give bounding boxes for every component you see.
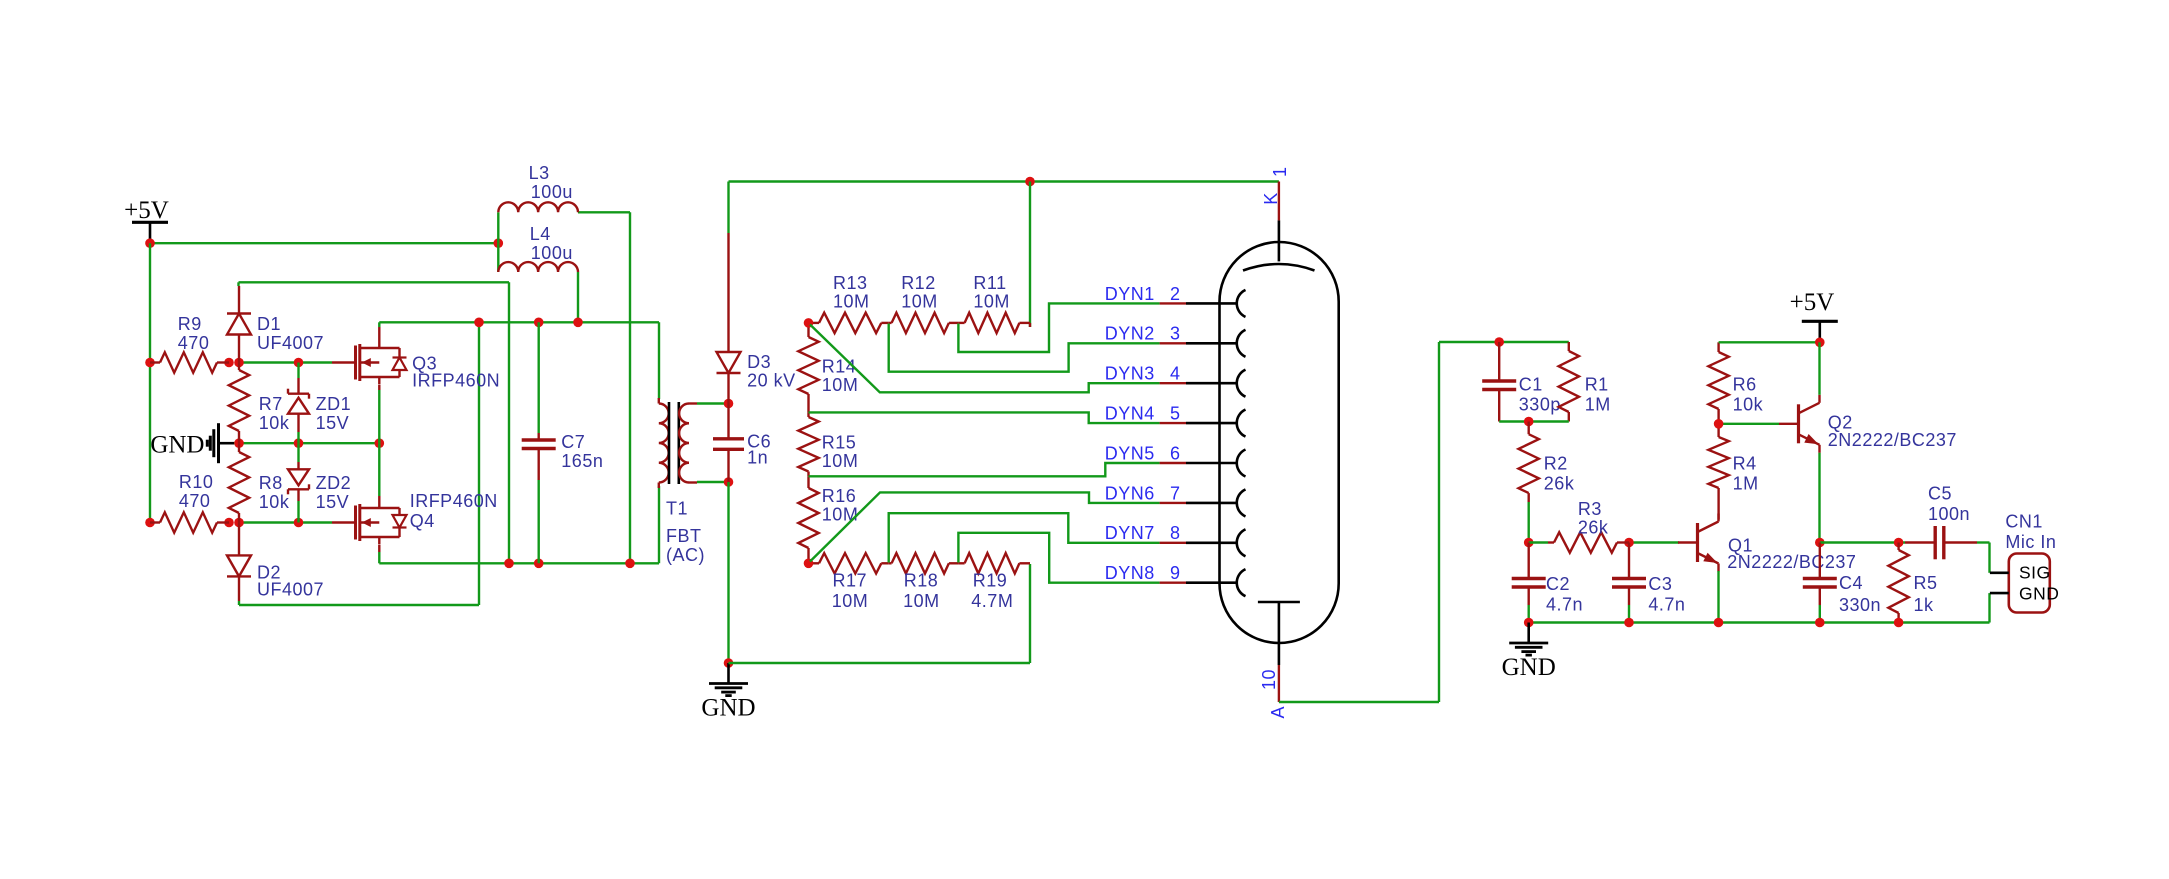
wire R19 return to GND	[729, 564, 1031, 663]
svg-text:L4: L4	[530, 224, 551, 244]
svg-text:9: 9	[1170, 563, 1181, 583]
ground GND (amp)	[1502, 623, 1556, 682]
svg-text:3: 3	[1170, 324, 1181, 344]
transistor Q2 2N2222/BC237	[1779, 395, 1957, 453]
svg-text:C1: C1	[1519, 375, 1543, 395]
svg-text:330n: 330n	[1839, 595, 1881, 615]
resistor R4 1M	[1708, 424, 1758, 520]
svg-text:DYN8: DYN8	[1105, 563, 1155, 583]
svg-text:R13: R13	[833, 273, 868, 293]
ground GND (middle)	[701, 663, 755, 722]
wire Q3 drain stub	[378, 322, 380, 327]
svg-text:DYN1: DYN1	[1105, 284, 1155, 304]
wire output node row	[1820, 538, 1905, 548]
wire net DYN7	[889, 513, 1160, 562]
wire Q2 emitter to output node	[1815, 453, 1825, 548]
net label DYN5 / pin 6	[1105, 443, 1181, 463]
svg-text:L3: L3	[529, 163, 550, 183]
wire Q4 drain stub	[378, 552, 380, 563]
PMT dynode pin 3	[1160, 330, 1246, 357]
wire HV top bus	[729, 177, 1279, 187]
wire C2 to GND row	[1527, 605, 1529, 623]
svg-text:R14: R14	[822, 357, 857, 377]
wire anode to amplifier	[1279, 337, 1569, 702]
wire Q2 collector	[1818, 342, 1820, 395]
wire C7 bottom	[538, 480, 540, 563]
svg-text:26k: 26k	[1578, 518, 1609, 538]
resistor R16 10M	[798, 476, 858, 563]
transistor Q4 IRFP460N	[332, 491, 498, 552]
svg-text:DYN4: DYN4	[1105, 404, 1155, 424]
wire base node row	[1529, 538, 1679, 548]
ground GND (left)	[150, 423, 234, 463]
net label DYN1 / pin 2	[1105, 284, 1181, 304]
svg-text:2: 2	[1170, 284, 1181, 304]
svg-text:Q4: Q4	[410, 511, 435, 531]
svg-text:10k: 10k	[1733, 395, 1764, 415]
svg-text:R12: R12	[901, 273, 936, 293]
resistor R11 10M	[958, 273, 1030, 333]
wire C7 top	[538, 322, 540, 433]
svg-text:SIG: SIG	[2019, 563, 2051, 583]
wire L4 right to tank top bus	[577, 272, 579, 322]
resistor R14 10M	[798, 323, 858, 413]
svg-text:10M: 10M	[903, 591, 940, 611]
resistor R8 10k	[229, 443, 290, 522]
net label DYN8 / pin 9	[1105, 563, 1181, 583]
svg-text:R2: R2	[1544, 454, 1568, 474]
capacitor C1 330p	[1482, 342, 1561, 422]
capacitor C5 100n	[1905, 484, 1977, 560]
svg-text:DYN7: DYN7	[1105, 523, 1155, 543]
svg-text:+5V: +5V	[1790, 289, 1835, 316]
svg-text:R7: R7	[259, 394, 283, 414]
resistor R12 10M	[889, 273, 959, 333]
wire C4 to GND row	[1819, 605, 1821, 623]
pin A (10) stub	[1278, 665, 1280, 702]
svg-text:T1: T1	[666, 499, 688, 519]
power +5V (right)	[1790, 289, 1838, 342]
svg-text:1: 1	[1270, 166, 1290, 177]
svg-text:R8: R8	[259, 473, 283, 493]
svg-text:R18: R18	[904, 571, 939, 591]
wire GND row (amp)	[1524, 618, 1990, 628]
wire T1 secondary bottom tap	[697, 477, 733, 487]
svg-text:1M: 1M	[1733, 474, 1759, 494]
resistor R19 4.7M	[958, 553, 1030, 611]
svg-text:10M: 10M	[832, 591, 869, 611]
junction R13 left	[804, 318, 814, 328]
svg-text:R19: R19	[973, 571, 1008, 591]
svg-text:4.7n: 4.7n	[1648, 595, 1685, 615]
resistor R5 1k	[1888, 543, 1937, 623]
wire D3 anode from top bus	[727, 182, 729, 234]
wire D2 cross-couple to Q3 drain	[239, 322, 479, 605]
wire T1 secondary top tap	[697, 399, 733, 409]
svg-text:DYN3: DYN3	[1105, 364, 1155, 384]
PMT dynode pin 9	[1160, 569, 1246, 596]
wire C5 to CN1 SIG	[1977, 543, 1990, 573]
svg-text:10M: 10M	[822, 451, 859, 471]
wire +5V rail (right)	[1719, 338, 1825, 348]
net label K / pin 1	[1261, 166, 1290, 204]
wire tank top bus	[379, 318, 659, 400]
transistor Q3 IRFP460N	[332, 327, 500, 391]
svg-text:DYN5: DYN5	[1105, 443, 1155, 463]
junction R17 left	[804, 559, 814, 569]
svg-text:10k: 10k	[259, 492, 290, 512]
svg-text:GND: GND	[1502, 654, 1556, 681]
svg-text:FBT: FBT	[666, 526, 702, 546]
wire R11 to top bus	[1029, 182, 1031, 328]
transistor Q1 2N2222/BC237	[1678, 514, 1856, 573]
svg-text:15V: 15V	[316, 492, 350, 512]
svg-text:UF4007: UF4007	[257, 580, 324, 600]
svg-text:CN1: CN1	[2005, 512, 2043, 532]
svg-text:R16: R16	[822, 486, 857, 506]
connector CN1 Mic In	[1990, 512, 2059, 613]
svg-text:DYN2: DYN2	[1105, 324, 1155, 344]
svg-text:R6: R6	[1733, 375, 1757, 395]
wire +5V rail top-left	[145, 238, 503, 248]
wire net DYN2	[889, 324, 1160, 372]
PMT anode	[1258, 602, 1300, 665]
resistor R9 470	[150, 314, 229, 373]
svg-text:26k: 26k	[1544, 474, 1575, 494]
inductor L4	[498, 224, 578, 272]
svg-text:C2: C2	[1546, 574, 1570, 594]
svg-text:GND: GND	[2019, 584, 2059, 604]
PMT tube envelope	[1220, 242, 1339, 643]
wire Q2 base row	[1714, 419, 1779, 429]
svg-text:D1: D1	[257, 314, 281, 334]
wire net DYN4	[809, 412, 1160, 423]
svg-text:C4: C4	[1839, 573, 1863, 593]
PMT dynode pin 7	[1160, 489, 1246, 516]
svg-text:7: 7	[1170, 483, 1181, 503]
resistor R1 1M	[1559, 342, 1611, 422]
resistor R2 26k	[1519, 422, 1575, 503]
PMT cathode	[1243, 220, 1315, 270]
svg-text:10: 10	[1259, 669, 1279, 690]
svg-text:DYN6: DYN6	[1105, 483, 1155, 503]
zener ZD2 15V	[288, 443, 351, 522]
svg-text:20 kV: 20 kV	[747, 371, 796, 391]
svg-text:8: 8	[1170, 523, 1181, 543]
svg-text:UF4007: UF4007	[257, 333, 324, 353]
svg-text:4.7M: 4.7M	[971, 591, 1013, 611]
svg-text:4.7n: 4.7n	[1546, 595, 1583, 615]
svg-text:470: 470	[179, 491, 211, 511]
capacitor C3 4.7n	[1612, 543, 1685, 615]
svg-text:1k: 1k	[1914, 595, 1935, 615]
wire net DYN3	[810, 325, 1160, 393]
resistor R18 10M	[889, 553, 959, 611]
wire L3 left drop	[497, 212, 499, 243]
svg-text:10M: 10M	[822, 505, 859, 525]
wire net DYN6	[810, 492, 1160, 561]
svg-text:1n: 1n	[747, 448, 768, 468]
wire C6 to GND	[724, 482, 734, 668]
svg-text:D3: D3	[747, 352, 771, 372]
wire GND row (left)	[234, 438, 384, 448]
wire Q3 gate row	[145, 358, 332, 368]
svg-text:10M: 10M	[973, 292, 1010, 312]
resistor R13 10M	[809, 273, 889, 333]
PMT dynode pin 8	[1160, 529, 1246, 556]
svg-text:R15: R15	[822, 433, 857, 453]
wire Q3 source to GND row	[378, 390, 380, 443]
inductor L3	[498, 163, 578, 212]
wire tank bottom bus	[379, 486, 659, 568]
svg-text:Mic In: Mic In	[2005, 532, 2056, 552]
svg-text:IRFP460N: IRFP460N	[412, 371, 500, 391]
resistor R7 10k	[229, 363, 290, 444]
svg-text:2N2222/BC237: 2N2222/BC237	[1828, 430, 1957, 450]
svg-text:165n: 165n	[561, 451, 603, 471]
wire net DYN1	[958, 303, 1159, 352]
diode D1 UF4007	[227, 286, 324, 363]
net label DYN2 / pin 3	[1105, 324, 1181, 344]
svg-text:A: A	[1268, 706, 1288, 719]
capacitor C7 165n	[522, 432, 604, 480]
svg-text:4: 4	[1170, 364, 1181, 384]
diode D3 20 kV	[717, 233, 796, 404]
wire D1 cross-couple to Q4 drain	[239, 282, 510, 563]
svg-text:R17: R17	[833, 571, 868, 591]
svg-text:R3: R3	[1578, 499, 1602, 519]
resistor R17 10M	[809, 553, 889, 611]
svg-text:R5: R5	[1914, 573, 1938, 593]
svg-text:ZD2: ZD2	[316, 473, 352, 493]
wire Q1 emitter to GND	[1717, 571, 1719, 623]
svg-text:R11: R11	[973, 273, 1006, 293]
wire L3 right to tank bottom bus	[578, 212, 630, 563]
wire C1/R1 bottom rail	[1499, 417, 1569, 427]
PMT dynode pin 6	[1160, 450, 1246, 477]
net label A / pin 10	[1259, 669, 1288, 719]
capacitor C6 1n	[713, 404, 771, 483]
svg-text:100u: 100u	[531, 182, 573, 202]
svg-text:15V: 15V	[316, 413, 350, 433]
svg-text:C5: C5	[1928, 484, 1952, 504]
diode D2 UF4007	[227, 523, 324, 602]
wire CN1 GND down	[1988, 593, 1990, 622]
wire L4 left rise	[497, 243, 499, 272]
net label DYN4 / pin 5	[1105, 404, 1181, 424]
svg-text:10M: 10M	[822, 375, 859, 395]
svg-text:330p: 330p	[1519, 395, 1561, 415]
svg-text:R9: R9	[178, 314, 202, 334]
wire Q4 source to GND row	[378, 443, 380, 496]
svg-text:C7: C7	[561, 432, 585, 452]
resistor R6 10k	[1708, 342, 1763, 424]
PMT dynode pin 5	[1160, 410, 1246, 437]
svg-text:GND: GND	[150, 432, 204, 459]
svg-text:K: K	[1261, 192, 1281, 205]
wire C3 to GND row	[1628, 605, 1630, 623]
svg-text:1M: 1M	[1585, 395, 1611, 415]
transformer T1 FBT (AC)	[659, 398, 705, 565]
net label DYN7 / pin 8	[1105, 523, 1181, 543]
svg-text:R1: R1	[1585, 375, 1609, 395]
svg-text:R4: R4	[1733, 454, 1757, 474]
net label DYN6 / pin 7	[1105, 483, 1181, 503]
wire net DYN8	[958, 533, 1159, 583]
svg-text:6: 6	[1170, 443, 1181, 463]
svg-text:100u: 100u	[531, 243, 573, 263]
wire +5V left vertical	[149, 243, 151, 522]
svg-text:100n: 100n	[1928, 504, 1970, 524]
svg-text:(AC): (AC)	[666, 545, 705, 565]
svg-text:+5V: +5V	[124, 197, 169, 224]
capacitor C2 4.7n	[1512, 543, 1583, 615]
svg-text:R10: R10	[179, 472, 214, 492]
resistor R15 10M	[798, 412, 858, 476]
capacitor C4 330n	[1803, 543, 1881, 616]
wire net DYN5	[809, 463, 1160, 476]
resistor R10 470	[150, 472, 229, 533]
svg-text:ZD1: ZD1	[316, 394, 352, 414]
zener ZD1 15V	[288, 363, 351, 444]
svg-text:470: 470	[178, 333, 210, 353]
power +5V (left)	[124, 197, 169, 243]
pin K (1) stub	[1278, 182, 1280, 221]
PMT dynode pin 4	[1160, 370, 1246, 397]
svg-text:2N2222/BC237: 2N2222/BC237	[1727, 552, 1856, 572]
net label DYN3 / pin 4	[1105, 364, 1181, 384]
wire Q4 gate row	[145, 518, 332, 528]
svg-text:10k: 10k	[259, 413, 290, 433]
svg-text:10M: 10M	[901, 292, 938, 312]
svg-text:IRFP460N: IRFP460N	[410, 491, 498, 511]
svg-text:10M: 10M	[833, 292, 870, 312]
resistor R3 26k	[1548, 499, 1629, 553]
svg-text:GND: GND	[701, 695, 755, 722]
wire R2 to base node	[1524, 502, 1534, 547]
PMT dynode pin 2	[1160, 290, 1246, 317]
svg-text:5: 5	[1170, 404, 1181, 424]
svg-text:C3: C3	[1648, 574, 1672, 594]
